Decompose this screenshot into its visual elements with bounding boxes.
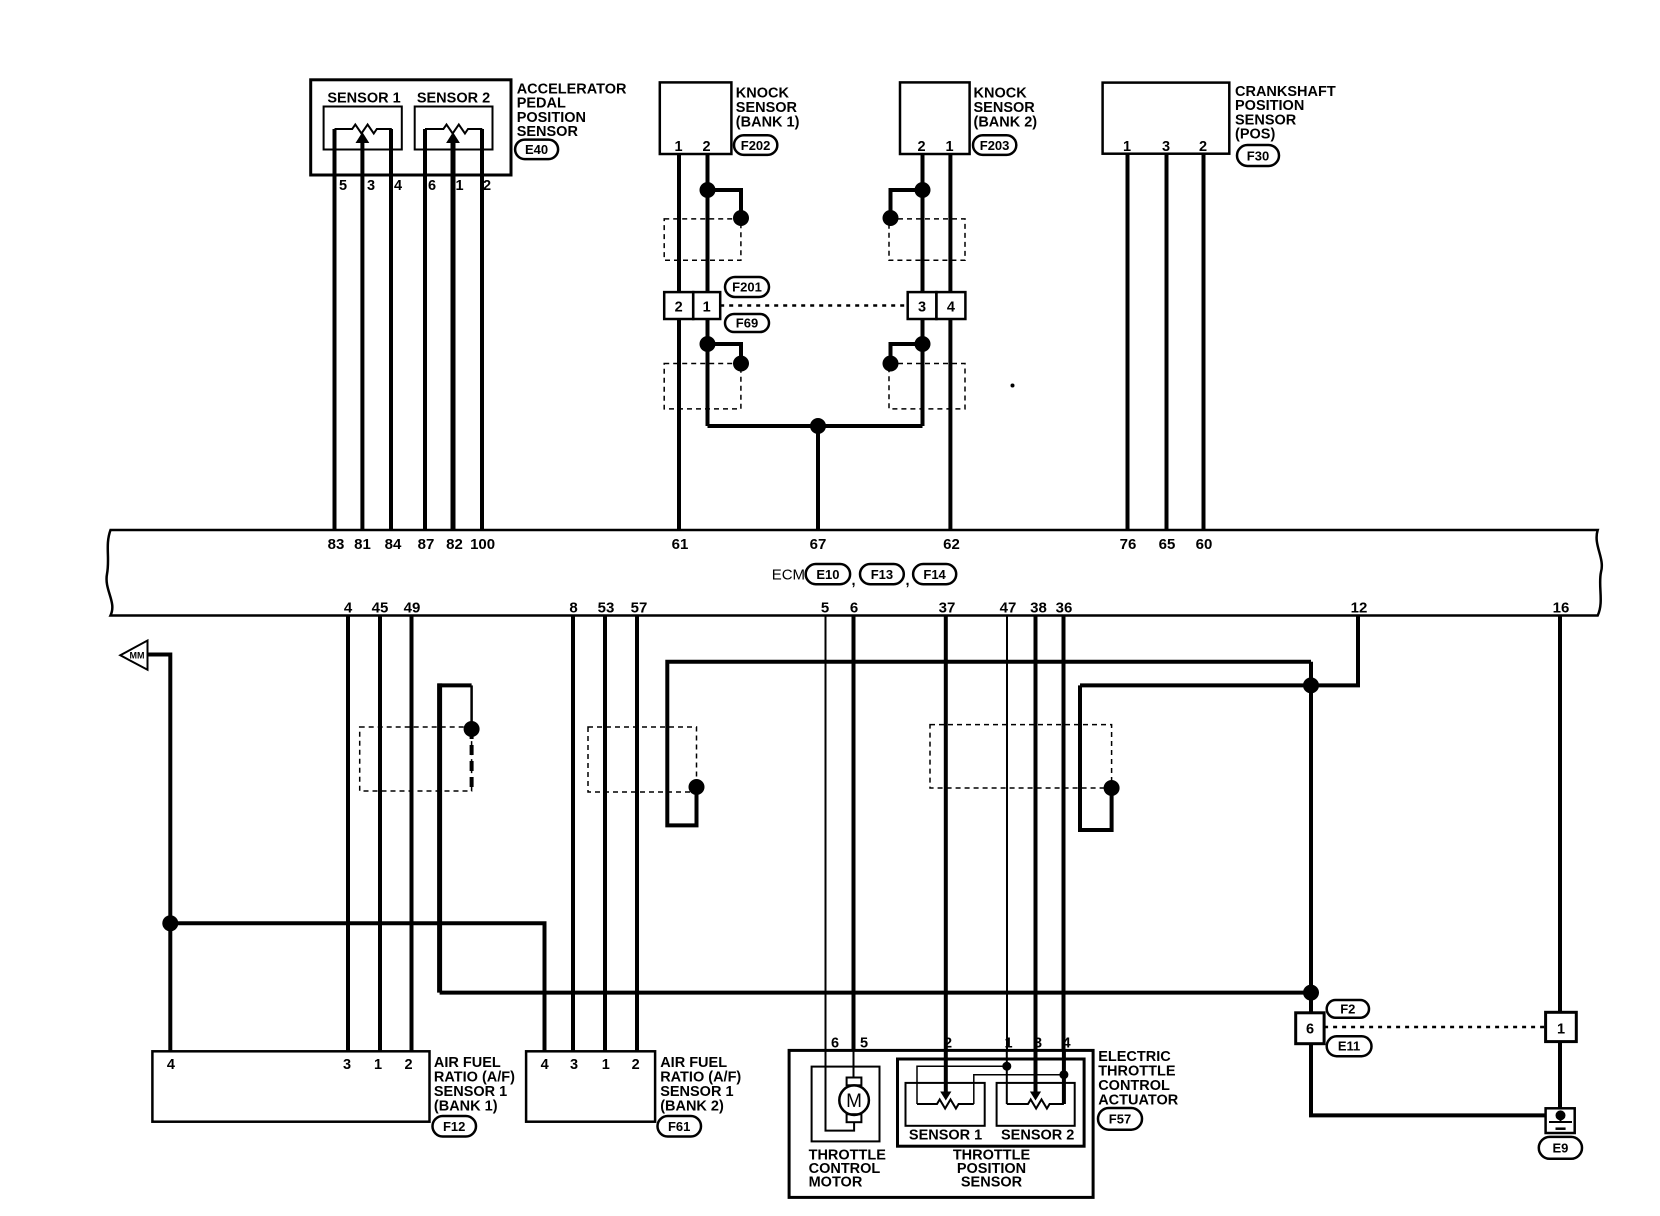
svg-text:81: 81 (354, 536, 371, 553)
wire from arrow MM (148, 655, 171, 1052)
wire box6 to ground bus bottom (1311, 1044, 1561, 1116)
TPS shield drain run (1080, 685, 1112, 830)
wire knock bus to ECM 67 (816, 426, 820, 530)
junction dot knock1 lower B (733, 356, 749, 372)
shield dashed box AF2 (588, 727, 697, 792)
knock sensor bank 2 box F203 (900, 82, 970, 155)
TPS sensor 2 inner box (997, 1083, 1075, 1126)
junction dot TPS shield (1104, 780, 1120, 796)
connector ref F30 (1237, 145, 1279, 166)
svg-text:F2: F2 (1340, 1001, 1355, 1016)
shield dashed box knock2 upper (889, 219, 965, 260)
svg-text:SENSOR: SENSOR (961, 1175, 1023, 1191)
junction dot ground bus upper (1303, 677, 1319, 693)
svg-text:60: 60 (1196, 536, 1213, 553)
svg-text:6: 6 (850, 600, 858, 617)
inline connector box pin 1 right (1546, 1012, 1577, 1041)
wire box1 to ground E9 (1558, 1042, 1562, 1110)
svg-text:SENSOR: SENSOR (517, 124, 579, 140)
svg-text:47: 47 (1000, 600, 1017, 617)
inline connector box pin 4 (936, 292, 965, 319)
svg-text:4: 4 (344, 600, 353, 617)
svg-text:1: 1 (1004, 1036, 1012, 1052)
svg-text:2: 2 (702, 139, 710, 155)
inline connector F201/F69 box pin 1 (693, 292, 720, 319)
svg-text:1: 1 (674, 139, 682, 155)
wire below connector box 4 to ECM 62 (948, 319, 952, 530)
crankshaft position sensor box F30 (1103, 83, 1230, 155)
svg-text:F14: F14 (923, 567, 946, 582)
svg-text:3: 3 (918, 300, 926, 316)
air fuel ratio sensor 1 bank 1 box F12 (152, 1051, 429, 1121)
connector ref F57 (1098, 1108, 1142, 1130)
svg-text:61: 61 (672, 536, 689, 553)
wire TPS pin 3 wiper (1034, 1050, 1038, 1092)
actuator pin numbers 6 5 2 1 3 4 (831, 1036, 1071, 1052)
label THROTTLE CONTROL MOTOR (809, 1148, 887, 1191)
svg-text:4: 4 (394, 178, 402, 194)
junction dot knock bus (810, 418, 826, 434)
shield drain elbow knock2 lower (891, 344, 923, 364)
svg-text:5: 5 (860, 1036, 868, 1052)
svg-text:2: 2 (917, 139, 925, 155)
junction dot ground bus lower (1303, 985, 1319, 1001)
svg-text:F203: F203 (980, 138, 1010, 153)
wire motor pin 5 to brush (853, 1050, 855, 1077)
connector ref F201 (725, 277, 769, 297)
label AIR FUEL RATIO (A/F) SENSOR 1 (BANK 1) (434, 1055, 515, 1115)
wire motor pin 6 internal (thin) (826, 1050, 855, 1130)
svg-text:2: 2 (1199, 139, 1207, 155)
wire E40 pin 1 to ECM 82 (451, 141, 456, 530)
label KNOCK SENSOR (BANK 2) (974, 85, 1038, 130)
svg-text:4: 4 (947, 300, 955, 316)
AF1 shield bold dashed segment (470, 729, 474, 791)
svg-text:(BANK 1): (BANK 1) (434, 1099, 498, 1115)
svg-text:KNOCK: KNOCK (736, 85, 790, 101)
svg-text:2: 2 (944, 1036, 952, 1052)
svg-text:(BANK 1): (BANK 1) (736, 115, 800, 131)
connector ref F2 (1327, 1000, 1369, 1018)
junction dot TPS pin 1 (1002, 1062, 1011, 1071)
svg-text:MM: MM (130, 651, 145, 661)
thin branch pin4 to sensor1 right (974, 1075, 1064, 1104)
svg-text:E10: E10 (816, 567, 839, 582)
wire crank pin 1 to ECM 76 (1126, 154, 1130, 530)
junction dot knock1 lower A (700, 336, 716, 352)
connector ref F203 (973, 135, 1016, 155)
svg-text:E11: E11 (1338, 1039, 1360, 1054)
svg-text:100: 100 (470, 536, 495, 553)
svg-text:3: 3 (367, 178, 375, 194)
svg-text:12: 12 (1351, 600, 1368, 617)
svg-text:(BANK 2): (BANK 2) (974, 115, 1038, 131)
wire E40 pin 6 to ECM 87 (423, 129, 427, 530)
shield dashed box knock1 upper (664, 219, 741, 260)
wire ECM 53 to AF2 pin 1 (603, 616, 607, 1052)
shield dashed box knock2 lower (889, 364, 965, 409)
E40 pin numbers 5 3 4 6 1 2 (339, 178, 491, 194)
wire TPS pin 1 supply (thin) (1006, 1050, 1008, 1104)
svg-text:4: 4 (167, 1057, 175, 1073)
svg-text:38: 38 (1030, 600, 1047, 617)
svg-text:53: 53 (598, 600, 615, 617)
wire below connector box 1 (706, 319, 710, 426)
svg-text:F12: F12 (443, 1119, 465, 1134)
svg-text:16: 16 (1553, 600, 1570, 617)
connector ref F202 (734, 135, 777, 155)
thin branch pin1 to sensor1 left (917, 1066, 1007, 1104)
svg-text:49: 49 (404, 600, 421, 617)
shield drain elbow knock1 lower (708, 344, 742, 364)
label THROTTLE POSITION SENSOR (953, 1148, 1031, 1191)
inline connector F2/E11 box pin 6 (1296, 1013, 1324, 1044)
svg-text:SENSOR 2: SENSOR 2 (1001, 1127, 1074, 1143)
svg-text:1: 1 (1123, 139, 1131, 155)
svg-text:3: 3 (570, 1057, 578, 1073)
svg-text:5: 5 (339, 178, 347, 194)
svg-text:,: , (852, 573, 856, 589)
connector ref F69 (725, 314, 769, 332)
svg-text:36: 36 (1056, 600, 1073, 617)
junction dot knock2 upper A (915, 182, 931, 198)
svg-text:2: 2 (675, 300, 683, 316)
shield ground bus vertical (1309, 662, 1313, 1013)
inline connector F201/F69 box pin 2 (664, 292, 693, 319)
svg-text:F69: F69 (736, 316, 758, 331)
inline connector box pin 3 (908, 292, 937, 319)
label ACCELERATOR PEDAL POSITION SENSOR (517, 81, 627, 140)
wire crank pin 3 to ECM 65 (1165, 154, 1169, 530)
junction dot knock2 upper B (883, 210, 899, 226)
svg-text:E9: E9 (1552, 1141, 1568, 1156)
TPS sensor 2 potentiometer (1007, 1092, 1064, 1109)
wire ECM 8 to AF2 pin 3 (571, 616, 575, 1052)
svg-text:76: 76 (1120, 536, 1137, 553)
svg-text:MOTOR: MOTOR (809, 1175, 863, 1191)
connector E40 accelerator pedal position sensor outer box (311, 80, 511, 175)
wire below connector box 2 to ECM 61 (677, 319, 681, 530)
wire AF ground branch to AF2 pin 4 (170, 923, 544, 1051)
junction dot AF1 shield (464, 721, 480, 737)
dotted harness link F2/E11 (1324, 1026, 1546, 1029)
svg-text:6: 6 (831, 1036, 839, 1052)
wire E40 pin 2 to ECM 100 (480, 129, 484, 530)
wire ECM 4 to AF1 pin 3 (346, 616, 350, 1052)
wire ECM 6 to throttle motor pin 5 (852, 616, 856, 1051)
connector ref F13 (860, 564, 904, 584)
wire below connector box 3 (921, 319, 925, 426)
svg-text:F30: F30 (1247, 149, 1269, 164)
svg-text:F61: F61 (668, 1119, 690, 1134)
svg-text:4: 4 (541, 1057, 549, 1073)
shield dashed box knock1 lower (664, 364, 741, 409)
svg-text:3: 3 (1034, 1036, 1042, 1052)
junction dot knock2 lower A (915, 336, 931, 352)
svg-text:65: 65 (1159, 536, 1176, 553)
svg-text:(POS): (POS) (1235, 127, 1275, 143)
wire ECM 49 to AF1 pin 2 (410, 616, 414, 1052)
svg-text:8: 8 (569, 600, 577, 617)
knock common bus horizontal (708, 424, 923, 428)
svg-text:1: 1 (602, 1057, 610, 1073)
connector ref E10 (806, 564, 850, 584)
svg-text:F13: F13 (871, 567, 893, 582)
connector ref E11 (1327, 1036, 1372, 1056)
svg-text:KNOCK: KNOCK (974, 85, 1028, 101)
wire ECM 57 to AF2 pin 2 (635, 616, 639, 1052)
potentiometer accelerator sensor 2 (425, 125, 482, 143)
junction dot AF2 shield (689, 779, 705, 795)
potentiometer accelerator sensor 1 (335, 125, 392, 143)
svg-text:F201: F201 (732, 280, 762, 295)
wire ECM 38 to TPS pin 3 (1034, 616, 1038, 1051)
svg-text:1: 1 (455, 178, 463, 194)
connector ref E40 (515, 140, 558, 160)
dotted harness link between connector halves (720, 304, 908, 307)
wire ECM 36 to TPS pin 4 (1062, 616, 1066, 1051)
svg-text:5: 5 (821, 600, 829, 617)
junction dot AF ground split (162, 915, 178, 931)
knock sensor bank 1 box F202 (660, 82, 732, 155)
motor M1 symbol (839, 1078, 869, 1123)
svg-text:SENSOR 1: SENSOR 1 (909, 1127, 982, 1143)
svg-text:3: 3 (1162, 139, 1170, 155)
svg-text:82: 82 (446, 536, 463, 553)
wire E40 pin 5 to ECM 83 (333, 129, 337, 530)
wire E40 pin 3 to ECM 81 (360, 141, 364, 530)
shield dashed box AF1 (360, 727, 472, 791)
svg-text:62: 62 (943, 536, 960, 553)
wire ECM 37 to TPS pin 2 (944, 616, 948, 1051)
wire ECM 47 to TPS pin 1 (thin) (1006, 616, 1008, 1051)
wire ECM 16 to box 1 (1558, 616, 1562, 1013)
label ELECTRIC THROTTLE CONTROL ACTUATOR (1098, 1049, 1179, 1108)
wire ECM 12 shield ground feed (1080, 616, 1358, 686)
ground symbol E9 (1546, 1108, 1575, 1133)
svg-text:84: 84 (385, 536, 402, 553)
svg-text:3: 3 (343, 1057, 351, 1073)
svg-text:87: 87 (418, 536, 435, 553)
svg-text:ACTUATOR: ACTUATOR (1098, 1093, 1179, 1109)
svg-text:1: 1 (945, 139, 953, 155)
wire crank pin 2 to ECM 60 (1202, 154, 1206, 530)
wire E40 pin 4 to ECM 84 (389, 129, 393, 530)
electric throttle control actuator outer box F57 (789, 1050, 1093, 1197)
svg-text:F57: F57 (1109, 1112, 1131, 1127)
shield dashed box TPS (930, 725, 1112, 788)
label CRANKSHAFT POSITION SENSOR (POS) (1235, 84, 1336, 143)
connector ref F61 (658, 1116, 702, 1137)
TPS sensor 1 potentiometer (917, 1092, 974, 1109)
svg-text:2: 2 (405, 1057, 413, 1073)
wire knock1 pin 1 to connector box 2 (677, 154, 681, 292)
connector ref E9 (1539, 1137, 1582, 1159)
svg-text:1: 1 (1557, 1022, 1565, 1038)
svg-text:2: 2 (483, 178, 491, 194)
junction dot knock2 lower B (883, 356, 899, 372)
wire knock2 pin 1 to connector box 4 (948, 154, 952, 292)
air fuel ratio sensor 1 bank 2 box F61 (526, 1051, 655, 1121)
AF1 shield drain upper link (438, 683, 472, 687)
wire TPS pin 4 (1062, 1050, 1066, 1104)
svg-text:2: 2 (632, 1057, 640, 1073)
svg-text:ECM: ECM (772, 567, 805, 584)
svg-text:(BANK 2): (BANK 2) (660, 1099, 724, 1115)
svg-text:,: , (906, 573, 910, 589)
svg-text:67: 67 (810, 536, 827, 553)
svg-text:45: 45 (372, 600, 389, 617)
svg-text:6: 6 (1306, 1022, 1314, 1038)
wire ECM 45 to AF1 pin 1 (378, 616, 382, 1052)
wire knock1 pin 2 to connector box 1 (706, 154, 710, 292)
svg-text:6: 6 (428, 178, 436, 194)
svg-text:57: 57 (631, 600, 648, 617)
label AIR FUEL RATIO (A/F) SENSOR 1 (BANK 2) (660, 1055, 741, 1115)
AF1 shield drain vertical run (437, 683, 442, 992)
AF2 shield drain run (667, 662, 1311, 826)
svg-text:SENSOR 2: SENSOR 2 (417, 91, 490, 107)
svg-text:SENSOR 1: SENSOR 1 (327, 91, 400, 107)
svg-text:4: 4 (1062, 1036, 1070, 1052)
svg-text:37: 37 (939, 600, 956, 617)
svg-text:F202: F202 (741, 138, 771, 153)
shield drain elbow knock1 upper (708, 190, 742, 218)
wire knock2 pin 2 to connector box 3 (921, 154, 925, 292)
wire ECM 5 to throttle motor pin 6 (thin) (825, 616, 827, 1051)
label KNOCK SENSOR (BANK 1) (736, 85, 800, 130)
throttle position sensor box (898, 1059, 1085, 1146)
svg-text:SENSOR: SENSOR (736, 100, 798, 116)
svg-text:M: M (846, 1091, 862, 1112)
off-page arrow MM (120, 641, 147, 670)
junction dot knock1 upper B (733, 210, 749, 226)
shield ground bus horizontal lower (440, 991, 1311, 995)
svg-text:83: 83 (328, 536, 345, 553)
svg-text:E40: E40 (525, 142, 548, 157)
connector ref F12 (433, 1116, 477, 1137)
throttle control motor inner box (812, 1067, 880, 1142)
junction dot TPS pin 4 (1059, 1070, 1068, 1079)
svg-text:1: 1 (703, 300, 711, 316)
wire TPS pin 2 wiper (944, 1050, 948, 1092)
svg-text:SENSOR: SENSOR (974, 100, 1036, 116)
ECM band with torn edges (107, 530, 1602, 616)
shield drain elbow knock2 upper (891, 190, 923, 218)
junction dot knock1 upper A (700, 182, 716, 198)
TPS sensor 1 inner box (906, 1083, 985, 1126)
svg-text:1: 1 (374, 1057, 382, 1073)
stray ink speck (1011, 384, 1015, 388)
connector ref F14 (913, 564, 956, 584)
